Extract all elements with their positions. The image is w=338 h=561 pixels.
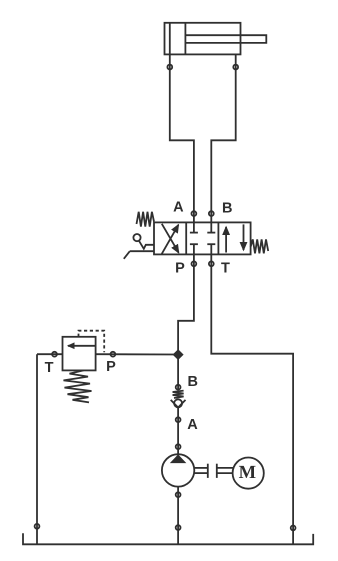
svg-text:A: A — [173, 200, 184, 216]
svg-text:B: B — [222, 200, 232, 216]
svg-text:M: M — [239, 463, 256, 483]
svg-text:B: B — [188, 374, 198, 390]
svg-text:P: P — [175, 260, 185, 276]
svg-text:T: T — [221, 260, 230, 276]
svg-text:T: T — [45, 360, 54, 376]
svg-text:P: P — [106, 359, 116, 375]
svg-text:A: A — [187, 417, 198, 433]
